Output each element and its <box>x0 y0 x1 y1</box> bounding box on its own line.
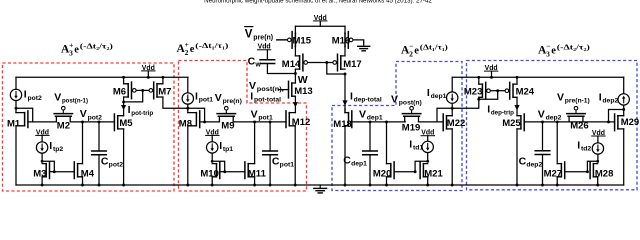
wire M23 source to rail <box>478 77 480 84</box>
dashed box A2+ (second red, notched) <box>179 61 307 192</box>
current source Ipot1 <box>182 77 193 108</box>
node Vpot2/M4 junction <box>81 120 84 123</box>
transistor M12 <box>286 111 310 128</box>
svg-text:M23: M23 <box>464 86 482 97</box>
current source Idep2 <box>618 77 629 109</box>
node Vpot1/M11 junction <box>253 120 256 123</box>
svg-text:M5: M5 <box>119 118 133 129</box>
wire M18 gate to Vdep1 net <box>352 121 406 123</box>
wire M8 gate lead <box>200 121 205 123</box>
wire M10-M11 gate wire <box>225 171 245 173</box>
node M28 source/rail junction <box>596 184 599 187</box>
wire M1 diode tie <box>16 108 33 122</box>
ground (M16 gate) <box>358 43 370 51</box>
node M28 gate junction <box>586 170 589 173</box>
wire M22 diode tie <box>437 108 452 122</box>
wire M22 drain lead <box>451 108 453 115</box>
transistor M26 <box>567 106 589 131</box>
svg-text:dep1: dep1 <box>351 161 367 168</box>
svg-text:M11: M11 <box>248 168 267 179</box>
svg-text:td1: td1 <box>413 145 423 152</box>
svg-text:M7: M7 <box>158 86 171 97</box>
transistor M20 <box>373 162 394 179</box>
transistor M28 <box>590 162 613 179</box>
node M4 source/rail junction <box>81 184 84 187</box>
label A2+ exponential (box B title) <box>177 40 229 57</box>
label A3+ exponential (box A title) <box>61 40 113 57</box>
wire rail to M16 source <box>344 26 346 33</box>
svg-text:(Δt₁/τ₁): (Δt₁/τ₁) <box>420 42 449 51</box>
wire box-D Vdd rail <box>452 76 624 78</box>
label Ipot2 <box>24 89 42 102</box>
label Itd1 <box>409 138 423 151</box>
svg-text:pot2: pot2 <box>88 114 103 121</box>
wire Vpre(n)bar to M15 gate <box>277 39 287 41</box>
svg-text:I: I <box>599 91 602 103</box>
wire M21 source to rail <box>427 177 429 185</box>
node Vdep1/M20 junction <box>385 120 388 123</box>
node M8 source/rail junction <box>186 184 189 187</box>
svg-text:(-Δt₂/τ₂): (-Δt₂/τ₂) <box>80 41 114 50</box>
node Vpot2/Cpot2 junction <box>98 120 101 123</box>
transistor M11 <box>245 162 267 179</box>
wire M5 drain (Ipot-trip) <box>123 102 125 116</box>
svg-text:dep-trip: dep-trip <box>491 110 514 117</box>
transistor M14 <box>282 54 308 71</box>
svg-text:3: 3 <box>546 49 550 58</box>
svg-text:pot1: pot1 <box>280 162 295 169</box>
label Vpre(n-1) (box D) <box>557 91 590 104</box>
current source Ipot2 <box>10 77 21 108</box>
svg-text:V: V <box>54 91 61 103</box>
wire M21 diode tie <box>415 161 428 171</box>
label Ipot-total <box>250 90 281 103</box>
wire M11 source to rail <box>254 177 256 185</box>
node Vdep2/Cdep2 junction <box>541 120 544 123</box>
node M18 source/rail junction <box>344 184 347 187</box>
node M23/M24 gate junction <box>496 89 499 92</box>
wire M8 drain lead <box>187 108 189 112</box>
arrow Ipot-total current <box>293 102 298 107</box>
wire box-A Vdd rail <box>16 76 188 78</box>
node M17 drain junction <box>344 73 347 76</box>
svg-text:V: V <box>251 108 258 120</box>
svg-text:I: I <box>24 89 27 101</box>
svg-text:2: 2 <box>409 49 413 58</box>
transistor M4 <box>74 162 94 179</box>
transistor M25 <box>502 114 524 131</box>
dashed box A3+ (left red) <box>3 63 175 191</box>
node M25 source/rail junction <box>516 184 519 187</box>
svg-text:dep1: dep1 <box>367 115 383 122</box>
transistor M1 <box>7 111 28 129</box>
ground symbol (main) <box>314 185 327 193</box>
svg-text:I: I <box>427 87 430 99</box>
node Ipot1/M8 drain junction <box>186 107 189 110</box>
node M6 drain junction <box>122 100 125 103</box>
wire M22 source to rail <box>451 129 453 185</box>
wire M29 diode tie <box>609 110 624 122</box>
label Ipot1 <box>195 90 213 103</box>
label Itp2 <box>49 140 63 153</box>
svg-text:M9: M9 <box>221 121 234 132</box>
wire M8 diode tie <box>188 108 205 122</box>
node Vdd/rail junction (box A) <box>147 76 150 79</box>
label Vdep2 <box>538 108 562 121</box>
node Vpot1/Cpot1 junction <box>269 120 272 123</box>
svg-text:M8: M8 <box>179 118 192 129</box>
svg-text:I: I <box>128 104 131 116</box>
node M29 gate junction <box>607 120 610 123</box>
wire M16 gate to ground <box>353 40 364 43</box>
svg-text:2: 2 <box>185 48 189 57</box>
wire M20-M21 gate wire <box>394 171 415 173</box>
capacitor Cpot2 <box>92 122 107 185</box>
wire M25 source to rail <box>516 129 518 185</box>
dashed box A2- (blue, notched) <box>332 62 462 191</box>
transistor M8 <box>179 111 200 129</box>
transistor M6 <box>113 82 136 99</box>
wire M29 drain lead <box>623 110 625 116</box>
svg-text:pot-total: pot-total <box>254 97 281 104</box>
wire gate junction to M6 drain (diode tie) <box>124 90 143 102</box>
svg-text:M27: M27 <box>544 168 562 179</box>
wire Cw bottom to W node <box>267 64 295 74</box>
svg-text:3: 3 <box>69 48 73 57</box>
wire gate junction to M17 drain (diode tie) <box>327 63 345 75</box>
node M3 source/rail junction <box>41 184 44 187</box>
wire M17 drain to M18 drain (Idep-total) <box>344 74 346 113</box>
label A2- exponential (box C title) <box>401 41 448 58</box>
transistor M21 <box>420 162 443 179</box>
wire M3 source to rail <box>41 177 43 185</box>
svg-text:e: e <box>74 45 79 56</box>
dashed box A3- (right blue) <box>467 61 638 190</box>
label Vpot2 <box>80 108 102 121</box>
wire M10 diode tie <box>212 161 225 171</box>
svg-text:V: V <box>359 108 366 120</box>
node M12 source/rail junction <box>294 184 297 187</box>
wire M15 gate lead <box>277 39 287 41</box>
label Idep-trip <box>487 103 514 116</box>
svg-text:V: V <box>538 108 545 120</box>
svg-text:M12: M12 <box>292 117 310 128</box>
svg-text:M24: M24 <box>516 86 535 97</box>
svg-text:(-Δt₁/τ₁): (-Δt₁/τ₁) <box>195 41 229 50</box>
node M6 source/rail junction <box>122 76 125 79</box>
arrow Ipot-trip current <box>121 105 126 110</box>
label Cdep1 <box>343 154 367 167</box>
svg-text:e: e <box>190 44 195 55</box>
current source Itp2 <box>36 136 47 162</box>
svg-text:M26: M26 <box>570 121 588 132</box>
capacitor Cdep2 <box>535 122 550 185</box>
transistor M15 <box>288 32 312 49</box>
wire M27 drain to Vdep2 <box>556 122 558 164</box>
wire M18 drain lead <box>344 109 346 113</box>
node M8 gate junction <box>203 120 206 123</box>
label Ipot-trip <box>128 104 154 117</box>
svg-text:M29: M29 <box>621 117 639 128</box>
capacitor Cpot1 <box>263 122 278 185</box>
transistor M24 <box>505 82 535 99</box>
svg-text:pot1: pot1 <box>258 115 273 122</box>
svg-text:Neuromorphic weight-update sch: Neuromorphic weight-update schematic of … <box>204 0 432 4</box>
node Itp2/M3 drain junction <box>41 160 44 163</box>
svg-text:tp1: tp1 <box>223 146 233 153</box>
transistor M23 <box>464 82 490 99</box>
svg-text:tp2: tp2 <box>53 146 63 153</box>
svg-text:td2: td2 <box>581 146 591 153</box>
node M21 drain junction <box>426 160 429 163</box>
svg-text:w: w <box>254 62 261 69</box>
node M14/M17 gate junction <box>325 61 328 64</box>
wire M7 drain to Ipot1 node <box>163 97 188 108</box>
svg-text:M13: M13 <box>294 86 312 97</box>
wire Vpot2 net <box>70 121 114 123</box>
transistor M18 <box>333 111 352 130</box>
svg-text:V: V <box>80 108 87 120</box>
transistor M3 <box>33 162 49 179</box>
arrow Idep-total current <box>342 100 347 105</box>
svg-text:M20: M20 <box>373 168 391 179</box>
label Vpre(n)bar (top left) <box>245 27 273 42</box>
wire M27-M28 gate wire <box>565 171 588 173</box>
power Vdd (Itd1) <box>421 130 434 137</box>
svg-text:post(n-1): post(n-1) <box>62 98 88 105</box>
label Vpost(n) (box C) <box>391 93 422 106</box>
label W node <box>298 74 308 86</box>
svg-text:pre(n-1): pre(n-1) <box>565 98 590 105</box>
svg-text:e: e <box>414 46 419 57</box>
svg-text:dep1: dep1 <box>431 93 447 100</box>
svg-text:M6: M6 <box>113 86 126 97</box>
wire M1 gate lead <box>28 121 33 123</box>
node W junction <box>294 72 297 75</box>
svg-text:pot1: pot1 <box>199 97 214 104</box>
node M21 source/rail junction <box>426 184 429 187</box>
power Vdd (box D rail) <box>484 65 497 72</box>
svg-text:V: V <box>215 92 222 104</box>
node M5 source/rail junction <box>122 184 125 187</box>
power Vdd (Cw) <box>257 44 270 51</box>
label Vpot1 <box>251 108 273 121</box>
label Cdep2 <box>519 155 543 168</box>
node M23 drain tie junction <box>477 98 480 101</box>
wire M20 source to rail <box>386 177 388 185</box>
svg-text:M2: M2 <box>57 121 70 132</box>
wire M1 gate node to M2 <box>33 121 57 123</box>
svg-text:M25: M25 <box>502 118 521 129</box>
power Vdd (Itd2) <box>592 130 605 137</box>
wire M6 source to rail <box>123 77 125 84</box>
svg-text:I: I <box>195 90 198 102</box>
node Cpot2/rail junction <box>98 184 101 187</box>
svg-text:W: W <box>298 74 308 86</box>
label A3- exponential (box D title) <box>538 41 590 58</box>
node M22 source/rail junction <box>451 184 454 187</box>
wire Vdep2 net <box>524 121 614 123</box>
transistor M10 <box>200 162 219 179</box>
transistor M27 <box>544 162 565 179</box>
label Vdep1 <box>359 108 383 121</box>
wire Vdd to Cw top plate <box>266 50 268 60</box>
power Vdd (Itp1) <box>206 129 219 136</box>
wire M23 drain lead <box>452 97 479 108</box>
label Cpot1 <box>272 155 294 168</box>
wire M4 source to rail <box>82 177 84 185</box>
wire M24 source to rail <box>516 77 518 84</box>
svg-text:pre(n): pre(n) <box>223 98 242 105</box>
current source Idep1 <box>447 77 458 108</box>
svg-text:pre(n): pre(n) <box>253 35 273 42</box>
svg-text:pot2: pot2 <box>27 95 42 102</box>
svg-text:V: V <box>391 93 398 105</box>
node M22 drain junction <box>451 107 454 110</box>
transistor M2 <box>54 106 72 131</box>
wire M20 drain to Vdep1 <box>386 122 388 164</box>
node M24 source/rail junction <box>516 76 519 79</box>
label Itp1 <box>219 140 233 153</box>
wire M13 gate lead <box>278 89 288 91</box>
page-top caption text (clipped) <box>204 0 432 4</box>
label Idep-total <box>350 90 382 103</box>
label Idep2 <box>599 91 619 104</box>
svg-text:I: I <box>577 139 580 151</box>
wire M3 gate lead <box>50 171 55 173</box>
svg-text:I: I <box>487 103 490 115</box>
node M23 source/rail junction <box>477 76 480 79</box>
label Cw <box>248 56 262 69</box>
label Cpot2 <box>101 155 123 168</box>
svg-text:I: I <box>409 138 412 150</box>
svg-text:M1: M1 <box>7 118 21 129</box>
node Vdep1/Cdep1 junction <box>369 120 372 123</box>
node M7 source/rail junction <box>161 76 164 79</box>
svg-text:dep2: dep2 <box>546 115 562 122</box>
wire M18 source to rail <box>344 126 346 185</box>
node M20 source/rail junction <box>385 184 388 187</box>
label Vpre(n) <box>215 92 242 105</box>
wire M8 gate node to M9 <box>205 121 220 123</box>
wire Vdd stem (box D) <box>491 71 493 77</box>
node Ipot2/M1 drain junction <box>15 107 18 110</box>
wire Vdd stem to top rail <box>319 21 321 26</box>
wire M14-M17 gate tie <box>309 62 332 64</box>
svg-text:I: I <box>49 140 52 152</box>
transistor M19 <box>402 106 421 133</box>
wire M14 drain to W node <box>294 69 296 73</box>
current source Itp1 <box>207 136 218 162</box>
node M10 source/rail junction <box>211 184 214 187</box>
svg-text:post(n),: post(n), <box>257 86 284 93</box>
wire M16 drain to M17 source <box>344 47 346 56</box>
label Itd2 <box>577 139 591 152</box>
transistor M13 <box>289 81 313 98</box>
node M29 drain junction <box>622 108 625 111</box>
transistor M22 <box>443 114 465 131</box>
wire M23-M24 gate tie <box>491 90 504 92</box>
svg-text:M18: M18 <box>333 119 351 130</box>
svg-text:V: V <box>557 91 564 103</box>
node Cdep1/rail junction <box>369 184 372 187</box>
transistor M16 <box>332 32 353 49</box>
node Itp1/M10 drain junction <box>211 160 214 163</box>
node M27 source/rail junction <box>556 184 559 187</box>
wire M15 drain to M14 source <box>294 47 296 56</box>
wire M6-M7 gate tie <box>137 89 148 91</box>
node Cdep2/rail junction <box>541 184 544 187</box>
svg-text:I: I <box>219 140 222 152</box>
wire M27 source to rail <box>556 177 558 185</box>
wire M10 source to rail <box>211 177 213 185</box>
svg-text:M22: M22 <box>447 118 465 129</box>
wire M11 drain to Vpot1 <box>254 122 256 164</box>
wire M10 gate lead <box>220 171 225 173</box>
node Vdd/rail junction (box D) <box>490 76 493 79</box>
wire Vpot1 net <box>233 121 286 123</box>
node M21 gate junction <box>414 170 417 173</box>
wire M3-M4 gate wire <box>54 171 74 173</box>
wire ground rail <box>16 184 624 186</box>
wire M8 source to rail <box>187 126 189 185</box>
wire W node to M13 drain <box>294 74 296 84</box>
wire M13 source to M12 drain (Ipot-total) <box>294 96 296 112</box>
wire M19 to M22 gate <box>419 121 444 123</box>
svg-text:post(n): post(n) <box>399 100 422 107</box>
node M11 source/rail junction <box>253 184 256 187</box>
node M28 drain junction <box>596 160 599 163</box>
svg-text:dep2: dep2 <box>602 98 618 105</box>
transistor M29 <box>615 114 640 131</box>
wire M6 drain lead <box>123 97 125 102</box>
wire M1 source to rail <box>15 126 17 185</box>
current source Itd2 <box>592 136 603 161</box>
transistor M7 <box>149 82 171 99</box>
svg-text:V: V <box>245 28 253 40</box>
node Cpot1/rail junction <box>269 184 272 187</box>
svg-text:e: e <box>551 46 556 57</box>
svg-text:M17: M17 <box>343 59 361 70</box>
current source Itd1 <box>422 136 433 162</box>
wire M3 diode tie <box>42 161 54 171</box>
svg-text:M10: M10 <box>200 168 218 179</box>
svg-text:pot2: pot2 <box>109 162 124 169</box>
node M10 gate junction <box>223 170 226 173</box>
power Vdd (top) <box>314 15 327 22</box>
svg-text:dep2: dep2 <box>526 162 542 169</box>
svg-text:dep-total: dep-total <box>354 97 382 104</box>
node M6/M7 gate junction <box>141 89 144 92</box>
power Vdd (Itp2) <box>36 129 49 136</box>
power Vdd (box A rail) <box>142 65 155 72</box>
label Vpost(n) (at M13 gate) <box>249 80 284 93</box>
svg-text:M15: M15 <box>293 36 312 47</box>
wire top rail <box>295 25 345 27</box>
wire Vdd stem (box A) <box>147 71 149 77</box>
wire M5 source to rail <box>123 129 125 185</box>
node M3 gate junction <box>53 170 56 173</box>
svg-text:(-Δt₂/τ₂): (-Δt₂/τ₂) <box>557 42 591 51</box>
wire M12 source to rail <box>294 126 296 185</box>
capacitor Cdep1 <box>363 122 378 185</box>
label Vpost(n-1) <box>54 91 88 104</box>
wire M29 source to rail <box>623 129 625 185</box>
wire rail to M15 source <box>294 26 296 33</box>
wire M7 source to rail <box>162 77 164 84</box>
wire M28 diode tie <box>587 161 597 171</box>
wire M24 drain (Idep-trip) <box>516 97 518 115</box>
